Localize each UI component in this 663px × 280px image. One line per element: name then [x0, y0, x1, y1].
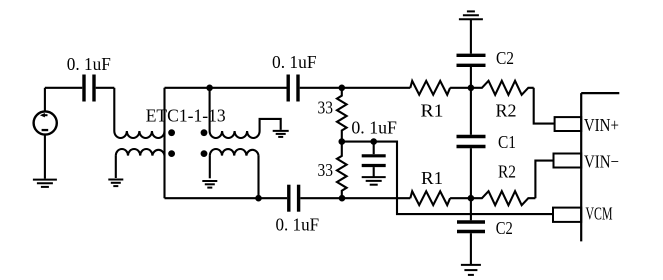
svg-text:C2: C2	[496, 218, 513, 238]
svg-text:ETC1-1-13: ETC1-1-13	[146, 106, 226, 126]
svg-text:C1: C1	[498, 132, 516, 152]
svg-text:33: 33	[318, 160, 334, 180]
svg-text:VIN−: VIN−	[584, 152, 619, 172]
svg-text:R1: R1	[421, 168, 443, 188]
svg-text:R2: R2	[496, 101, 517, 121]
svg-text:VIN+: VIN+	[584, 115, 619, 135]
svg-text:R2: R2	[498, 162, 516, 182]
svg-text:0. 1uF: 0. 1uF	[351, 118, 397, 138]
svg-text:33: 33	[318, 98, 334, 118]
svg-text:VCM: VCM	[586, 204, 613, 224]
svg-text:C2: C2	[496, 48, 514, 68]
svg-text:0. 1uF: 0. 1uF	[67, 54, 111, 74]
svg-text:0. 1uF: 0. 1uF	[276, 215, 320, 235]
svg-text:R1: R1	[421, 101, 444, 121]
svg-text:0. 1uF: 0. 1uF	[272, 52, 317, 72]
